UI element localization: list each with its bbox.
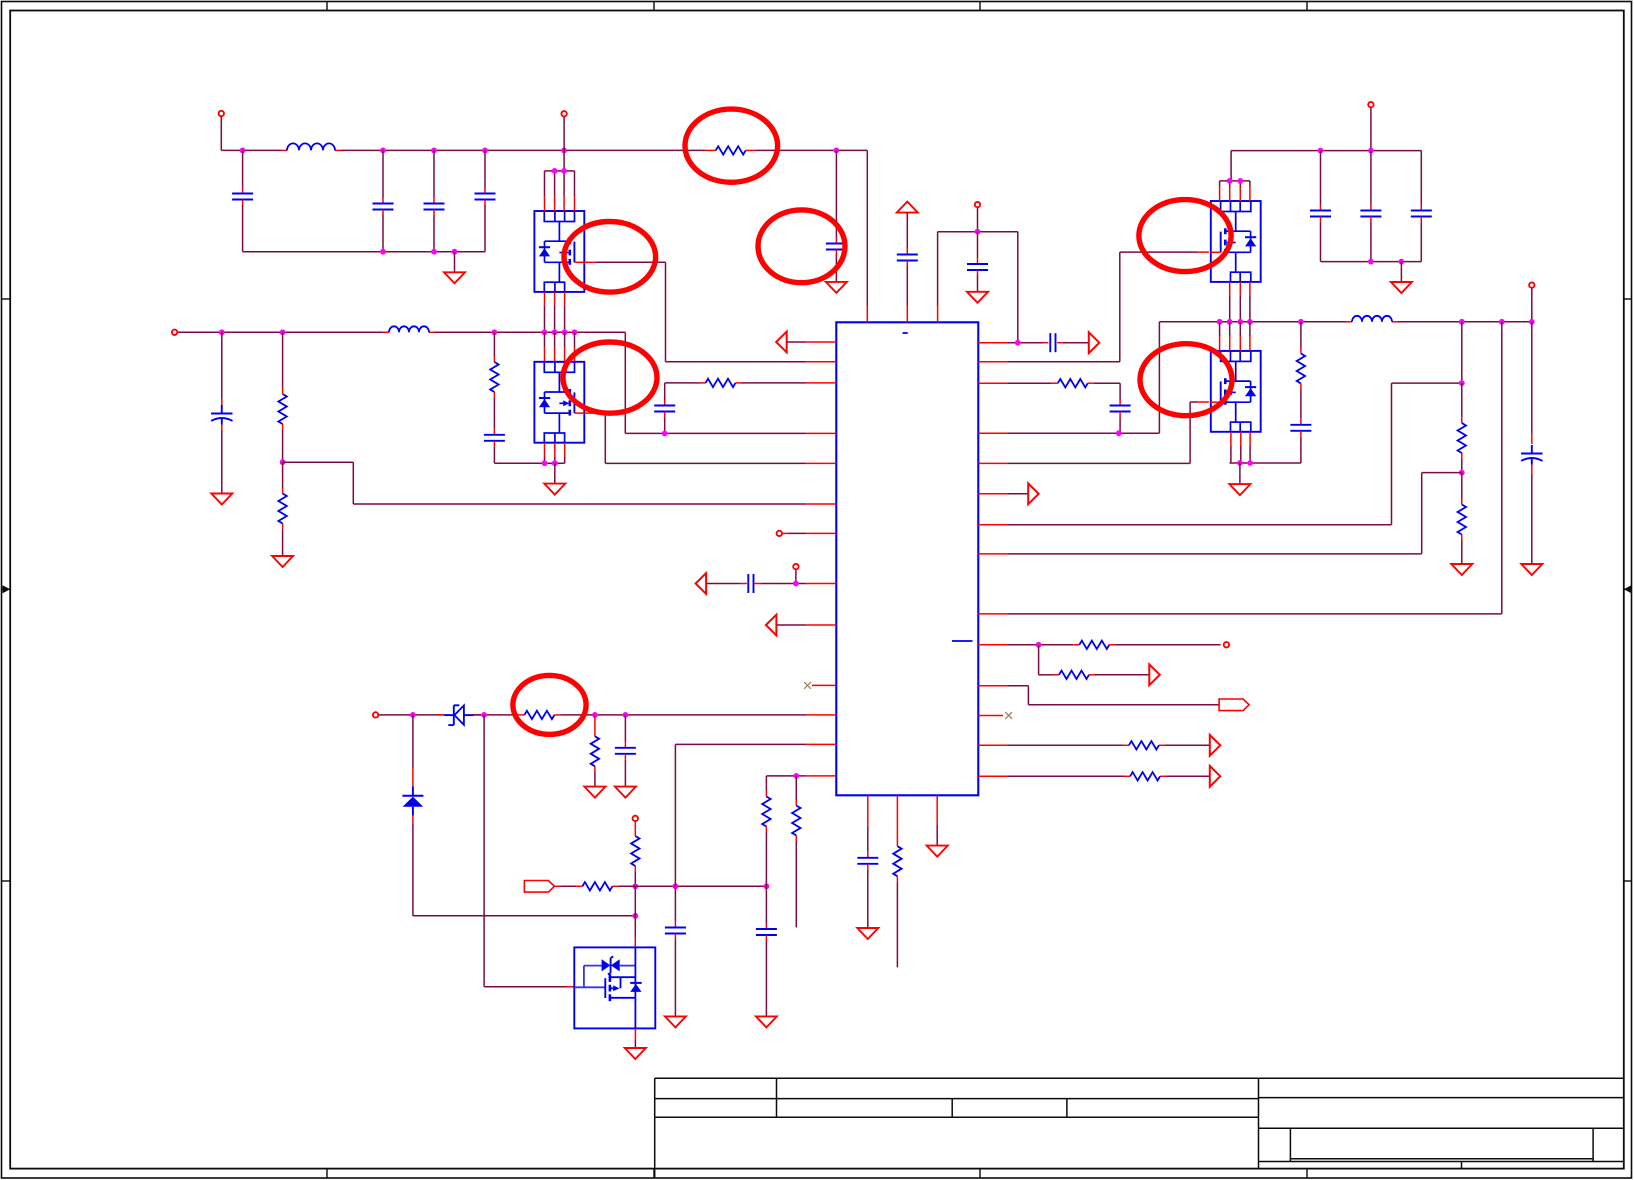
wire mode xyxy=(978,686,1219,705)
wire pgood2 xyxy=(978,775,1209,777)
wire comp to IC xyxy=(754,583,837,585)
capacitor C18 xyxy=(1411,151,1432,262)
ground GND2 xyxy=(826,282,847,293)
capacitor C12 xyxy=(615,715,636,787)
junction D2 node xyxy=(632,913,638,919)
transistor Q3 (high-side right) xyxy=(1211,201,1261,282)
ground GND17 xyxy=(1521,564,1542,575)
junction sync xyxy=(1036,642,1042,648)
resistor R11 (dangling) xyxy=(792,776,800,928)
wire Q1 source pins xyxy=(545,292,565,332)
port J7 xyxy=(633,816,638,836)
resistor R17 xyxy=(1079,641,1109,649)
wire SW1 rail xyxy=(383,332,836,433)
highlight ellipse 6 xyxy=(1140,344,1232,416)
transistor Q1 (high-side left) xyxy=(534,211,584,292)
wire Q5 drain xyxy=(634,886,636,947)
junction bst xyxy=(1015,340,1021,346)
wire HB right xyxy=(978,382,1120,384)
wire HB left xyxy=(665,382,837,384)
junction cs2 xyxy=(793,773,799,779)
resistor R2 xyxy=(278,332,286,462)
capacitor C10 boot xyxy=(654,383,675,434)
junction R8 bottom xyxy=(632,883,638,889)
capacitor C9 xyxy=(484,429,505,463)
capacitor C4 xyxy=(475,150,496,251)
junction J5 xyxy=(793,581,799,587)
capacitor C22 (electrolytic) xyxy=(1521,322,1542,564)
no-connect X left xyxy=(804,682,836,689)
wire Q2 gate xyxy=(584,413,836,463)
ground GND3 xyxy=(967,292,988,303)
wire vdd right leg xyxy=(1017,232,1019,343)
wire vcc2 rail xyxy=(471,714,836,716)
highlight ellipse 4 xyxy=(1139,200,1231,272)
junction SW2 D xyxy=(1247,319,1253,325)
wire fb xyxy=(978,473,1462,554)
inductor L2 xyxy=(389,326,429,332)
junction Q4 src B xyxy=(1247,460,1253,466)
wire Q4 gate xyxy=(978,402,1209,463)
ground GND9 xyxy=(625,1028,646,1059)
resistor R20 xyxy=(1130,772,1160,780)
resistor R1 (in highlight) xyxy=(716,146,746,154)
junction SW2 B xyxy=(1227,319,1233,325)
port J1 xyxy=(219,111,224,151)
junction SW1 D xyxy=(542,329,548,335)
border zone tick marks left/right xyxy=(2,299,1633,881)
ground GND15 xyxy=(1229,463,1250,495)
junction Q4 src A xyxy=(1237,460,1243,466)
wire VIN1 rail xyxy=(221,149,867,151)
wire cs2 xyxy=(766,775,836,777)
IC U1 inner mark top xyxy=(903,332,908,334)
wire Q3 source pins xyxy=(1230,282,1250,322)
border center arrow right xyxy=(1624,585,1632,593)
ground GND11 xyxy=(756,1016,777,1027)
junction SW1 C xyxy=(492,329,498,335)
wire vdd to IC xyxy=(938,232,1018,323)
wire ilim net xyxy=(554,885,766,887)
ground GND8 xyxy=(615,787,636,798)
junction SW2 F xyxy=(1459,319,1465,325)
capacitor C13 xyxy=(665,886,686,1016)
flag net label left xyxy=(524,881,554,893)
port arrow COMP xyxy=(696,573,747,594)
capacitor C3 xyxy=(424,150,445,251)
junction SW2 G xyxy=(1499,319,1505,325)
capacitor C15 ss xyxy=(857,795,878,928)
ground GND14 xyxy=(1391,262,1412,293)
resistor R3 xyxy=(278,462,286,556)
port J6 xyxy=(373,712,444,717)
resistor R16 xyxy=(1458,473,1466,564)
junction divider mid xyxy=(1459,470,1465,476)
junction VIN2 B xyxy=(1368,148,1374,154)
junction SW1 A xyxy=(219,329,225,335)
wire Q4 drain pins xyxy=(1220,322,1250,351)
border center arrow left xyxy=(2,585,11,593)
zener D1 xyxy=(438,705,481,725)
capacitor C16 xyxy=(1310,151,1331,262)
junction rail1 E xyxy=(561,148,567,154)
resistor R5 xyxy=(706,379,736,387)
highlight ellipse 1 xyxy=(685,109,778,182)
resistor R4 gate pulldown xyxy=(490,332,498,429)
wire VIN2 rail xyxy=(1231,151,1421,181)
inductor L1 xyxy=(287,143,335,150)
junction rail1 A xyxy=(240,148,246,154)
junction Q3 bundle B xyxy=(1237,178,1243,184)
wire gnd rail top-right xyxy=(1321,261,1422,263)
wire VIN to IC pin xyxy=(866,150,868,322)
title block xyxy=(655,1078,1624,1178)
capacitor C1 xyxy=(232,150,253,251)
IC U1 inner mark right xyxy=(952,640,973,642)
highlight ellipse 3 xyxy=(758,210,845,283)
port arrow PG xyxy=(978,483,1038,504)
resistor R18 xyxy=(1059,671,1089,679)
wire cs1 xyxy=(675,744,836,886)
resistor R8 xyxy=(631,836,639,886)
ground GND1 xyxy=(444,252,465,284)
resistor R9 xyxy=(582,882,612,890)
junction gndrailR A xyxy=(1368,259,1374,265)
junction Q1 bundle B xyxy=(561,168,567,174)
junction SW2 C xyxy=(1237,319,1243,325)
port J9 xyxy=(1529,282,1534,321)
junction rail1 D xyxy=(482,148,488,154)
junction rail1 C xyxy=(431,148,437,154)
wire feedback left xyxy=(283,462,837,504)
diode D2 xyxy=(402,715,635,916)
ground GND12 xyxy=(857,928,878,939)
junction VIN2 A xyxy=(1318,148,1324,154)
port J3 xyxy=(172,330,389,335)
port arrow PG2 xyxy=(1210,766,1221,787)
wire Q1 drain bundle xyxy=(545,150,575,211)
junction SW1 E xyxy=(552,329,558,335)
junction Q2 src A xyxy=(542,460,548,466)
junction gndrail C xyxy=(452,249,458,255)
inductor L3 xyxy=(1352,316,1392,322)
wire gnd rail top-left xyxy=(243,251,485,253)
junction vcc2 A xyxy=(410,712,416,718)
junction gndrail A xyxy=(380,249,386,255)
wire sync branch xyxy=(1039,645,1149,675)
no-connect X right xyxy=(978,712,1012,719)
wire Q5 gate feed xyxy=(484,715,574,987)
wire vo sense lower xyxy=(978,322,1502,614)
capacitor C8 (electrolytic) xyxy=(211,332,232,493)
capacitor C6 vcc xyxy=(897,249,918,323)
resistor R6 (in highlight) xyxy=(524,711,554,719)
port J5 stub xyxy=(793,564,798,584)
wire Q2 source rail xyxy=(494,443,564,464)
ground GND4 xyxy=(211,494,232,505)
ground GND10 xyxy=(665,1016,686,1027)
wire vo sense upper xyxy=(978,383,1462,525)
junction divider top xyxy=(1459,380,1465,386)
port arrow PG1 xyxy=(1210,735,1221,756)
ground GND6 xyxy=(544,463,565,494)
junction SW2 H xyxy=(1529,319,1535,325)
flag net label right xyxy=(1219,699,1249,711)
port J2 vdd xyxy=(975,202,980,232)
port J10 xyxy=(1224,642,1229,647)
wire sync xyxy=(978,644,1220,646)
junction SW1 F xyxy=(562,329,568,335)
transistor Q4 (low-side right) xyxy=(1211,351,1261,432)
highlight ellipse 7 xyxy=(513,675,586,734)
port J8 xyxy=(1368,102,1373,151)
port arrow EN xyxy=(766,615,836,636)
junction SW1 G xyxy=(572,329,578,335)
wire Q2 drain pins xyxy=(545,332,575,362)
junction vcc2 D xyxy=(623,712,629,718)
resistor R12 rt xyxy=(893,795,901,967)
junction gndrail B xyxy=(431,249,437,255)
capacitor C20 boot xyxy=(1110,383,1131,433)
junction SW2 E xyxy=(1298,319,1304,325)
capacitor C11 series xyxy=(748,574,753,593)
resistor R13 xyxy=(1297,322,1305,419)
resistor R14 xyxy=(1058,379,1088,387)
ground GND13 xyxy=(927,795,948,856)
junction C20 bottom xyxy=(1116,430,1122,436)
ground GND7 xyxy=(584,787,605,798)
junction rail1 B xyxy=(380,148,386,154)
capacitor C2 xyxy=(373,150,394,251)
IC U1 body xyxy=(836,322,978,795)
wire divider top leg xyxy=(1461,322,1463,383)
port J4 xyxy=(777,531,837,536)
junction C10 bottom xyxy=(662,431,668,437)
port arrow IN1 xyxy=(776,332,836,353)
capacitor C14 xyxy=(756,886,777,1016)
junction SW2 A xyxy=(1217,319,1223,325)
capacitor C19 xyxy=(1290,419,1311,463)
transistor Q2 (low-side left) xyxy=(534,362,584,443)
wire Q4 source rail xyxy=(1230,432,1301,463)
capacitor C21 series xyxy=(1050,333,1055,352)
junction gndrailR B xyxy=(1399,259,1405,265)
border zone tick marks top/bottom xyxy=(327,2,1307,1179)
port arrow CLK xyxy=(1149,664,1160,685)
wire bst right xyxy=(978,342,1048,344)
junction ilim B xyxy=(764,883,770,889)
junction Q3 bundle A xyxy=(1227,178,1233,184)
ground GND16 xyxy=(1451,564,1472,575)
junction ilim A xyxy=(673,883,679,889)
resistor R10 xyxy=(762,776,770,886)
capacitor C5 bypass xyxy=(826,150,847,282)
port arrow BST xyxy=(1057,332,1099,353)
wire SW2 rail xyxy=(978,322,1532,433)
power arrow VCC xyxy=(897,202,918,249)
capacitor C7 vdd xyxy=(967,232,988,292)
junction vcc2 B xyxy=(481,712,487,718)
wire Q3 drain bundle xyxy=(1220,181,1250,201)
wire Q3 gate xyxy=(978,252,1209,362)
ground GND5 xyxy=(272,556,293,567)
wire Q1 gate xyxy=(584,262,836,362)
wire pgood1 xyxy=(978,744,1209,746)
port J11 xyxy=(561,111,566,150)
capacitor C17 xyxy=(1360,151,1381,262)
junction vcc2 C xyxy=(592,712,598,718)
resistor R15 xyxy=(1458,383,1466,473)
junction R2 bottom xyxy=(280,459,286,465)
junction SW1 B xyxy=(280,329,286,335)
highlight ellipse 2 xyxy=(564,221,656,292)
resistor R19 xyxy=(1129,741,1159,749)
junction Q1 bundle A xyxy=(552,168,558,174)
resistor R7 xyxy=(591,715,599,787)
transistor Q5 (protection FET) xyxy=(574,947,655,1028)
junction rail1 F xyxy=(834,148,840,154)
junction Q2 src B xyxy=(552,460,558,466)
highlight ellipse 5 xyxy=(563,342,657,413)
junction vdd xyxy=(975,229,981,235)
